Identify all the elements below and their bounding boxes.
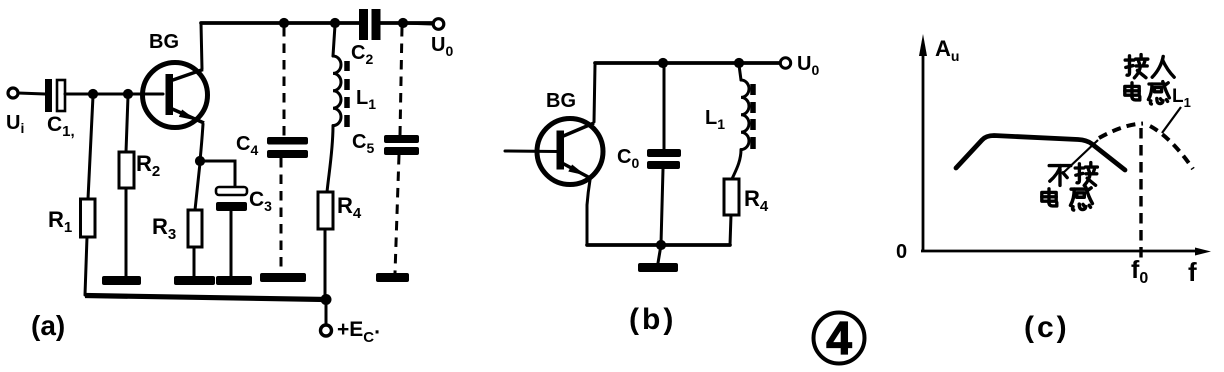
node top rail L1 xyxy=(330,18,340,28)
resistor R4 (b) xyxy=(724,179,739,215)
wire to ground (b) xyxy=(658,245,661,263)
terminal U0 (b) xyxy=(780,58,790,68)
wire R4 to bottom rail xyxy=(324,229,327,298)
wire rail to output (b) xyxy=(739,62,780,65)
resistor R2 xyxy=(119,152,134,188)
CJK 接 (of 接入) xyxy=(1125,55,1148,78)
ground C4 xyxy=(260,273,306,282)
svg-text:(b): (b) xyxy=(629,303,676,336)
wire R3 to ground xyxy=(193,247,196,277)
resistor R4 (a) xyxy=(318,192,333,229)
wire emitter down xyxy=(200,124,203,161)
CJK 不 (of 不接) xyxy=(1049,166,1071,186)
dashed wire C4 to ground xyxy=(280,158,283,273)
wire emitter to C3 xyxy=(200,161,235,187)
dashed wire C5 to ground xyxy=(395,155,399,273)
node bottom rail junction xyxy=(321,294,332,305)
ground R3 xyxy=(174,276,215,285)
dashed wire top to C5 xyxy=(400,27,402,135)
ground C3 xyxy=(216,276,252,285)
wire C1 to base xyxy=(65,93,163,96)
capacitor C2 xyxy=(359,9,381,40)
svg-text:BG: BG xyxy=(546,90,576,112)
figure number 4 circled xyxy=(814,312,865,364)
CJK 电 (of 电感) xyxy=(1042,189,1057,206)
dashed wire top to C4 xyxy=(283,27,286,137)
CJK 入 (of 接入) xyxy=(1152,56,1174,77)
wire C3 to ground xyxy=(230,211,233,277)
terminal Ui xyxy=(8,88,45,98)
node top rail C5 xyxy=(398,18,408,28)
wire collector to rail (b) xyxy=(594,65,595,122)
capacitor C1 xyxy=(45,79,65,112)
ground R2 xyxy=(102,276,141,285)
capacitor C4 xyxy=(267,137,308,158)
svg-text:4: 4 xyxy=(826,312,852,364)
wire to R2 xyxy=(126,96,128,152)
node rail L1 (b) xyxy=(734,58,744,68)
CJK 接 (of 不接) xyxy=(1075,163,1097,186)
bottom rail (a) xyxy=(85,296,326,300)
y-axis Au xyxy=(919,34,927,251)
wire C0 top xyxy=(663,65,666,149)
solid response curve xyxy=(956,136,1125,171)
svg-text:(a): (a) xyxy=(31,310,65,341)
ground (b) xyxy=(638,263,678,272)
bottom rail (b) xyxy=(587,243,730,247)
wire base (b) xyxy=(505,150,557,154)
svg-text:f: f xyxy=(1188,257,1197,287)
dashed vertical at f0 xyxy=(1139,128,1142,259)
CJK 感 (of 电感L1) xyxy=(1148,82,1169,104)
leader line to solid curve xyxy=(1062,140,1098,174)
CJK 感 (of 电感) xyxy=(1071,187,1093,210)
node top rail C4 xyxy=(279,18,289,28)
node rail C0 xyxy=(658,58,668,68)
inductor L1 (a) xyxy=(327,25,347,192)
top rail right segment xyxy=(380,21,433,25)
wire to +Ec terminal xyxy=(325,301,328,324)
node junction input-left xyxy=(88,89,98,99)
svg-text:(c): (c) xyxy=(1024,311,1070,344)
wire R2 to ground xyxy=(125,188,128,276)
terminal U0 (a) xyxy=(433,19,444,30)
capacitor C0 xyxy=(647,149,681,169)
transistor BG (a) xyxy=(143,63,208,128)
svg-text:0: 0 xyxy=(896,241,907,263)
leader line to dashed curve xyxy=(1162,107,1181,133)
wire emitter down (b) xyxy=(587,180,590,244)
transistor BG (b) xyxy=(537,119,603,185)
dashed resonance curve xyxy=(1099,124,1193,170)
wire R4 to rail (b) xyxy=(730,215,731,245)
wire collector to top rail xyxy=(201,23,202,69)
wire to R1 xyxy=(88,96,93,199)
ground C5 xyxy=(376,273,409,282)
capacitor C3 xyxy=(216,187,247,211)
svg-text:BG: BG xyxy=(149,31,179,53)
top rail left segment xyxy=(201,21,360,25)
resistor R1 xyxy=(81,199,96,237)
capacitor C5 xyxy=(384,135,419,155)
wire R1 to bottom rail xyxy=(85,237,87,295)
inductor L1 (b) xyxy=(732,65,753,179)
terminal +Ec xyxy=(321,325,332,336)
wire emitter to R3 xyxy=(195,163,200,210)
resistor R3 xyxy=(188,210,202,247)
wire rail to output xyxy=(403,23,432,24)
top rail (b) xyxy=(595,61,781,65)
wire C0 bottom xyxy=(661,169,663,244)
node bottom rail (b) xyxy=(656,240,666,250)
node junction input-right xyxy=(123,89,133,99)
node emitter junction xyxy=(195,156,205,166)
CJK 电 (of 电感L1) xyxy=(1125,83,1140,100)
x-axis f xyxy=(921,248,1211,256)
